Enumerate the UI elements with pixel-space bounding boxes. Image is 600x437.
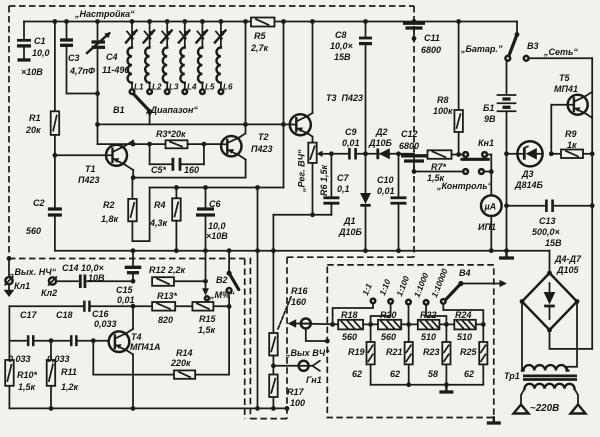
- diode D2: [368, 127, 393, 159]
- switch B2 fixed contact with arrow: [202, 251, 235, 301]
- svg-text:R14: R14: [176, 348, 193, 358]
- svg-text:R12 2,2к: R12 2,2к: [149, 265, 186, 275]
- svg-text:R19: R19: [348, 347, 365, 357]
- svg-text:10,0: 10,0: [32, 48, 50, 58]
- svg-text:„Вых ВЧ“: „Вых ВЧ“: [285, 348, 330, 358]
- jack: RF output upper (to attenuator): [288, 319, 339, 344]
- svg-text:С5*: С5*: [151, 165, 167, 175]
- resistor R25: [460, 324, 487, 384]
- svg-text:R17: R17: [287, 387, 305, 397]
- resistor R3: [147, 129, 206, 148]
- node: R24/R25 junction: [476, 322, 486, 327]
- inductor L3: [161, 22, 179, 94]
- capacitor C6: [196, 185, 228, 251]
- svg-text:L2: L2: [152, 83, 162, 92]
- svg-text:Д105: Д105: [556, 265, 580, 275]
- inductor L2: [144, 22, 162, 94]
- terminal Kl1 with chassis arrow: [4, 259, 57, 298]
- capacitor C10: [377, 154, 407, 251]
- svg-text:R1: R1: [29, 113, 41, 123]
- svg-text:500,0×: 500,0×: [532, 227, 561, 237]
- resistor R1: [25, 22, 59, 156]
- capacitor C18: [47, 310, 76, 364]
- svg-text:„Сеть“: „Сеть“: [543, 47, 578, 57]
- capacitor C2: [26, 155, 62, 250]
- node: R20/R22 junction: [401, 322, 418, 327]
- svg-text:Д1: Д1: [343, 216, 356, 226]
- wire: right side column (mains/DC minus): [590, 58, 595, 349]
- svg-text:62: 62: [352, 369, 362, 379]
- resistor R12: [149, 265, 206, 286]
- svg-text:R3*20к: R3*20к: [156, 129, 186, 139]
- svg-text:0,033: 0,033: [8, 354, 31, 364]
- svg-text:L3: L3: [169, 83, 179, 92]
- svg-text:×10В: ×10В: [206, 231, 228, 241]
- dashed border: RF oscillator box right edge (x=414): [413, 6, 415, 257]
- terminal Kl2: [41, 277, 78, 298]
- resistor R9: [551, 129, 592, 158]
- capacitor C12: [399, 129, 427, 174]
- svg-text:„Контроль“: „Контроль“: [436, 181, 493, 191]
- svg-text:С1: С1: [34, 36, 46, 46]
- svg-text:560: 560: [342, 332, 357, 342]
- svg-text:Д10Б: Д10Б: [338, 227, 363, 237]
- inductor L5: [196, 22, 215, 94]
- resistor R20: [378, 310, 401, 342]
- svg-text:2,7к: 2,7к: [250, 43, 269, 53]
- switch B1 band selector lever: [113, 95, 198, 125]
- dashed border: AF oscillator box right edge: [244, 259, 246, 420]
- dashed border: RF oscillator box bottom edge right part: [287, 256, 414, 258]
- svg-text:С18: С18: [56, 310, 73, 320]
- svg-text:R13*: R13*: [157, 291, 178, 301]
- inductor L6: [215, 22, 233, 94]
- wire: bridge right vertex to secondary: [567, 302, 577, 371]
- svg-text:1,5к: 1,5к: [18, 382, 36, 392]
- dashed border: RF output box right edge: [286, 257, 288, 418]
- capacitor C17: [8, 310, 38, 364]
- capacitor C13: [504, 154, 592, 248]
- svg-text:„Диапазон“: „Диапазон“: [145, 105, 198, 115]
- node: T4 collector junction: [131, 304, 136, 309]
- resistor R15: [192, 302, 216, 335]
- resistor R10: [5, 360, 37, 408]
- switch B4 lever and output arrow: [446, 268, 507, 299]
- svg-text:820: 820: [158, 315, 173, 325]
- svg-text:„Настройка“: „Настройка“: [74, 9, 135, 19]
- svg-text:С9: С9: [345, 127, 357, 137]
- svg-text:Т2: Т2: [258, 132, 269, 142]
- svg-text:R8: R8: [437, 95, 449, 105]
- svg-text:Тр1: Тр1: [504, 371, 520, 381]
- svg-text:С3: С3: [68, 53, 80, 63]
- wire: tank to T3 base line (y=124): [98, 123, 291, 125]
- transformer Tr1 primary winding: [525, 384, 575, 389]
- tap 1:100: [395, 275, 411, 325]
- switch V3 Set contact: [524, 41, 592, 61]
- ground symbol attenuator: [439, 385, 453, 392]
- node: D3/R9 junction: [549, 151, 554, 156]
- switch B2 lever: [227, 251, 239, 375]
- capacitor C5: [150, 144, 204, 175]
- wire: R16/R17 column x=273.4: [272, 215, 274, 409]
- svg-text:10,0×: 10,0×: [330, 41, 354, 51]
- svg-text:С12: С12: [401, 129, 418, 139]
- svg-text:Т5: Т5: [559, 73, 570, 83]
- svg-text:15В: 15В: [545, 238, 562, 248]
- svg-text:R22: R22: [420, 310, 437, 320]
- wire: T4 base row y=340.7: [9, 340, 108, 342]
- tap 1:1000: [413, 271, 447, 324]
- node: R8/R7 junction: [456, 152, 461, 157]
- wire: detector line y=153.8: [331, 153, 414, 155]
- node: R18/R20 junction: [363, 322, 378, 327]
- svg-text:1,8к: 1,8к: [101, 214, 119, 224]
- resistor R7: [427, 150, 463, 183]
- inductor L1: [126, 22, 144, 94]
- transistor T2: [221, 132, 272, 160]
- transistor T1: [55, 141, 133, 185]
- svg-text:0,1: 0,1: [337, 184, 350, 194]
- capacitor C8: [330, 22, 372, 154]
- resistor R8: [433, 22, 463, 155]
- svg-text:10В: 10В: [88, 273, 105, 283]
- svg-text:100к: 100к: [433, 106, 453, 116]
- svg-text:R11: R11: [61, 367, 77, 377]
- svg-text:R2: R2: [103, 200, 115, 210]
- svg-text:510: 510: [421, 332, 436, 342]
- svg-text:6800: 6800: [399, 141, 419, 151]
- svg-text:160: 160: [291, 297, 306, 307]
- node: T1 collector junction: [131, 142, 136, 147]
- switch Batar lever: [460, 22, 519, 61]
- wire: C7/R6 bottom jog to ground rail: [273, 212, 331, 217]
- svg-text:R4: R4: [154, 200, 166, 210]
- svg-text:Д4-Д7: Д4-Д7: [554, 254, 582, 264]
- wire: attenuator bottom bus: [371, 382, 484, 387]
- svg-text:100: 100: [290, 398, 305, 408]
- svg-text:С16: С16: [92, 309, 110, 319]
- svg-text:Д814Б: Д814Б: [514, 180, 544, 190]
- wire: bias node line (y=187.5): [150, 22, 286, 188]
- node: battery / D3 junction: [504, 151, 509, 156]
- svg-text:11-490: 11-490: [102, 65, 129, 75]
- capacitor C15: [116, 251, 141, 305]
- resistor R22: [418, 310, 440, 342]
- dashed border: RF oscillator box left edge: [8, 6, 10, 259]
- svg-text:1к: 1к: [567, 140, 577, 150]
- svg-text:„Рег. ВЧ“: „Рег. ВЧ“: [297, 149, 307, 193]
- wire: battery to D3: [507, 153, 518, 155]
- node: C9/D2/D1 junction: [363, 151, 368, 156]
- wire: top supply bus: [24, 21, 517, 23]
- svg-text:R23: R23: [423, 347, 440, 357]
- capacitor C16: [85, 300, 117, 329]
- ground symbol at box corner bottom: [487, 418, 501, 424]
- jack Gn1 (Vykh VCh): [273, 348, 330, 385]
- svg-text:62: 62: [464, 369, 474, 379]
- svg-text:Т4: Т4: [131, 332, 142, 342]
- svg-text:0,01: 0,01: [117, 295, 135, 305]
- capacitor C7: [323, 154, 349, 215]
- wire: T2 emitter down and shared emitter line: [131, 160, 246, 180]
- resistor R17: [269, 375, 305, 409]
- resistor R2: [101, 178, 137, 242]
- resistor R21: [386, 324, 413, 384]
- svg-text:R9: R9: [565, 129, 577, 139]
- svg-text:П423: П423: [251, 144, 273, 154]
- transistor T3: [290, 22, 363, 143]
- resistor R16: [269, 286, 308, 356]
- svg-text:С15: С15: [116, 285, 134, 295]
- svg-text:„Вых. НЧ“: „Вых. НЧ“: [9, 267, 57, 277]
- svg-text:9В: 9В: [484, 114, 496, 124]
- pushbutton Kn1: [414, 138, 494, 191]
- wire: bus to T3 base / T2 collector column (x=245.5): [243, 22, 248, 134]
- mains plug pins ~220V: [514, 389, 586, 414]
- wire: tank node down leg and R3 feed line (y=144): [98, 143, 222, 145]
- resistor R18: [338, 310, 363, 342]
- svg-text:В2: В2: [216, 275, 228, 285]
- ground symbol on rail: [499, 248, 514, 258]
- resistor R13: [152, 291, 177, 325]
- svg-text:R6 1,5к: R6 1,5к: [319, 164, 329, 196]
- inductor L4: [179, 22, 197, 94]
- svg-text:С7: С7: [337, 173, 349, 183]
- svg-text:1,5к: 1,5к: [198, 325, 216, 335]
- svg-text:R21: R21: [386, 347, 403, 357]
- svg-text:С4: С4: [106, 52, 118, 62]
- svg-text:С6: С6: [209, 199, 221, 209]
- svg-text:4,7пФ: 4,7пФ: [69, 66, 95, 76]
- svg-text:П423: П423: [78, 175, 100, 185]
- svg-text:20к: 20к: [25, 125, 41, 135]
- svg-text:Д2: Д2: [375, 127, 388, 137]
- svg-text:R10*: R10*: [17, 370, 38, 380]
- svg-text:R5: R5: [254, 31, 266, 41]
- svg-text:С2: С2: [33, 198, 45, 208]
- svg-text:×10В: ×10В: [21, 67, 43, 77]
- svg-text:ИП1: ИП1: [478, 222, 496, 232]
- svg-text:Кл2: Кл2: [41, 288, 57, 298]
- svg-text:10,0: 10,0: [208, 221, 226, 231]
- svg-text:6800: 6800: [421, 45, 441, 55]
- node: R1/T1 base junction: [53, 153, 58, 158]
- svg-text:Д3: Д3: [521, 169, 534, 179]
- dashed border: RF output box bottom edge: [250, 418, 287, 420]
- svg-text:R24: R24: [455, 310, 472, 320]
- svg-text:µА: µА: [484, 202, 497, 212]
- battery B1: [483, 61, 516, 154]
- tap 1:1: [333, 282, 376, 324]
- svg-text:МП41А: МП41А: [130, 342, 160, 352]
- svg-text:В4: В4: [459, 268, 471, 278]
- node: D2/C10 junction: [396, 151, 401, 156]
- resistor R5: [250, 18, 275, 54]
- svg-text:С17: С17: [20, 310, 38, 320]
- dashed border: AF oscillator box top edge: [9, 258, 245, 260]
- node: R16 bottom / Gn1 junction: [271, 363, 276, 368]
- transformer Tr1 secondary winding: [522, 365, 568, 370]
- transistor T5: [551, 73, 592, 118]
- node: R6 wiper to C9: [329, 151, 334, 156]
- svg-text:Кл1: Кл1: [14, 281, 30, 291]
- svg-text:Кн1: Кн1: [478, 138, 494, 148]
- svg-text:4,3к: 4,3к: [149, 218, 168, 228]
- capacitor C11: [403, 23, 441, 55]
- svg-text:L5: L5: [205, 83, 215, 92]
- svg-text:L6: L6: [223, 83, 233, 92]
- svg-text:220к: 220к: [170, 358, 191, 368]
- wire: battery column to ground rail: [506, 206, 508, 251]
- svg-text:С13: С13: [539, 216, 556, 226]
- svg-text:R25: R25: [460, 347, 478, 357]
- node: AF box corner junction: [7, 256, 12, 261]
- potentiometer R6 (Рег. ВЧ): [297, 143, 332, 215]
- zener diode D3: [514, 141, 544, 190]
- svg-text:R18: R18: [341, 310, 358, 320]
- transformer Tr1 core: [504, 371, 577, 381]
- svg-text:В3: В3: [527, 41, 539, 51]
- svg-text:15В: 15В: [334, 52, 351, 62]
- tap 1:10000: [430, 267, 483, 324]
- svg-text:„Батар.”: „Батар.”: [460, 44, 503, 54]
- svg-text:С11: С11: [424, 33, 440, 43]
- svg-text:Гн1: Гн1: [306, 375, 322, 385]
- wire: C3/C4 bottom link: [67, 93, 98, 95]
- svg-text:560: 560: [381, 332, 396, 342]
- transistor T4: [109, 306, 161, 408]
- svg-text:L4: L4: [187, 83, 197, 92]
- wire: bottom rail: [9, 406, 289, 411]
- capacitor C14: [62, 263, 133, 288]
- resistor R23: [423, 324, 451, 384]
- svg-text:510: 510: [457, 332, 472, 342]
- svg-text:R16: R16: [291, 286, 309, 296]
- wire: bridge left vertex to secondary: [521, 302, 523, 371]
- svg-text:58: 58: [428, 369, 438, 379]
- svg-text:L1: L1: [134, 83, 144, 92]
- svg-text:Т3 П423: Т3 П423: [326, 93, 363, 103]
- capacitor C3: [60, 22, 95, 94]
- svg-text:Б1: Б1: [483, 103, 494, 113]
- resistor R11: [47, 341, 79, 409]
- dashed border: attenuator box: [327, 265, 494, 418]
- node: tank node: [95, 91, 100, 96]
- svg-text:R7*: R7*: [431, 162, 447, 172]
- capacitor C1: [17, 22, 50, 78]
- svg-text:Т1: Т1: [85, 164, 96, 174]
- tap 1:10: [371, 278, 393, 325]
- wire: bridge bottom to DC minus column: [550, 330, 593, 349]
- node: T4 base junction: [91, 338, 96, 343]
- svg-text:С14 10,0×: С14 10,0×: [62, 263, 105, 273]
- svg-text:0,01: 0,01: [377, 186, 395, 196]
- svg-text:560: 560: [26, 226, 41, 236]
- diode D1: [338, 154, 371, 251]
- capacitor C9: [342, 127, 360, 161]
- svg-text:МП41: МП41: [554, 84, 578, 94]
- meter IP1: [478, 172, 502, 251]
- node: R22/R24 junction: [439, 322, 454, 327]
- dashed border: RF output box left edge: [249, 258, 251, 419]
- svg-text:0,033: 0,033: [94, 319, 117, 329]
- svg-text:R20: R20: [380, 310, 397, 320]
- resistor R4: [149, 185, 181, 251]
- wire: R2 bottom U-link to bias node: [132, 188, 149, 242]
- diode bridge D4-D7: [520, 251, 582, 333]
- wire: AF oscillator output row y=306.2: [9, 305, 229, 307]
- svg-text:R15: R15: [199, 314, 217, 324]
- svg-text:С10: С10: [377, 175, 394, 185]
- resistor R19: [348, 324, 375, 384]
- wire: mid ground link x=257.5: [255, 185, 260, 408]
- resistor R14: [170, 348, 229, 379]
- svg-text:1,2к: 1,2к: [61, 382, 79, 392]
- resistor R24: [454, 310, 476, 342]
- svg-text:160: 160: [184, 165, 199, 175]
- svg-text:Д10Б: Д10Б: [368, 138, 393, 148]
- wire: attenuator input row y=324.4: [330, 322, 335, 327]
- svg-text:62: 62: [390, 369, 400, 379]
- wire: T4 base feedback route: [93, 341, 174, 375]
- svg-text:В1: В1: [113, 105, 125, 115]
- svg-text:0,01: 0,01: [342, 138, 360, 148]
- dashed border: RF oscillator box top edge: [9, 5, 414, 7]
- svg-text:~220В: ~220В: [530, 403, 559, 414]
- node: bus junction dots: [53, 19, 462, 24]
- capacitor C4 (variable): [87, 22, 129, 145]
- svg-text:С8: С8: [335, 30, 347, 40]
- wire: left AF column x=9.4: [8, 306, 10, 360]
- wire: ground rail (y=250.7): [55, 248, 550, 253]
- wire: T5 base to D3 node: [550, 105, 552, 154]
